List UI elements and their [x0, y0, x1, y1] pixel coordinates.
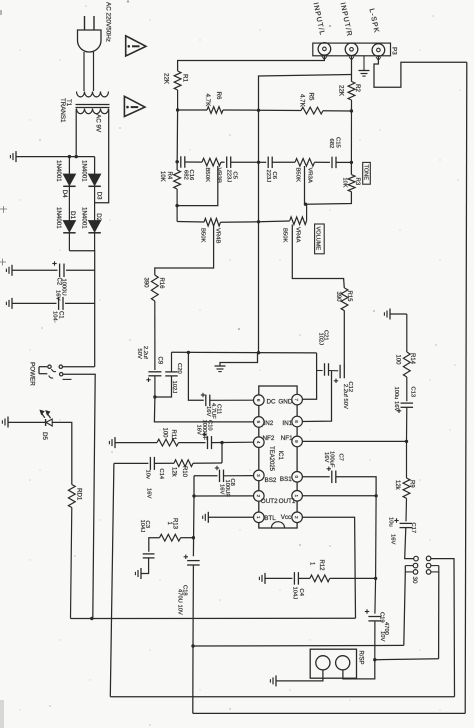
- capacitor: [226, 156, 228, 168]
- capacitor: [331, 471, 333, 484]
- svg-text:NF1: NF1: [281, 435, 293, 442]
- wire: [192, 565, 195, 713]
- wire: [336, 161, 351, 163]
- wire: [404, 572, 406, 646]
- svg-text:B50K: B50K: [295, 168, 301, 182]
- svg-text:C4: C4: [298, 589, 304, 597]
- resistor R12: [310, 575, 330, 582]
- svg-text:AC 9V: AC 9V: [95, 114, 102, 133]
- wire: [65, 302, 95, 304]
- ground: [7, 417, 9, 428]
- wire: [303, 440, 407, 442]
- warning triangle 1: [126, 36, 146, 56]
- wire top rail: [16, 156, 95, 158]
- svg-text:16V: 16V: [145, 488, 151, 498]
- svg-text:102J: 102J: [318, 333, 324, 346]
- wire: [350, 162, 352, 174]
- svg-text:R3: R3: [354, 178, 360, 186]
- diode D3 1N4001: [88, 174, 100, 186]
- wire: [438, 572, 440, 659]
- ground: [215, 365, 226, 367]
- wire: [154, 301, 156, 370]
- junction C19 bottom: [373, 658, 376, 661]
- wire: [208, 516, 253, 518]
- wire: [93, 52, 95, 91]
- junction tone wiper: [175, 204, 178, 207]
- potentiometer VR3B: [202, 158, 221, 166]
- svg-text:1: 1: [294, 495, 299, 498]
- svg-text:223J: 223J: [226, 170, 232, 183]
- jack bracket right: [431, 565, 439, 567]
- svg-text:1N4001: 1N4001: [80, 160, 87, 182]
- svg-text:7: 7: [294, 398, 299, 401]
- svg-text:100: 100: [394, 355, 400, 366]
- wire: [374, 55, 467, 87]
- wire to DC pin: [210, 399, 254, 401]
- svg-text:10v: 10v: [144, 470, 150, 479]
- wire: [323, 110, 351, 112]
- svg-text:R5: R5: [308, 93, 315, 101]
- svg-text:TRANS1: TRANS1: [59, 98, 66, 123]
- svg-text:C14: C14: [158, 469, 164, 480]
- wire R2 to tone: [350, 100, 352, 162]
- capacitor: [58, 297, 60, 310]
- wire: [276, 670, 323, 681]
- box TONE: [363, 162, 371, 184]
- wire: [465, 62, 467, 713]
- wire: [177, 161, 179, 163]
- svg-text:TEA2025: TEA2025: [268, 446, 274, 472]
- wire: [303, 371, 332, 422]
- capacitor: [148, 371, 161, 373]
- svg-text:R10: R10: [181, 466, 187, 478]
- svg-text:3: 3: [256, 474, 261, 477]
- capacitor: [339, 365, 341, 379]
- jack contact: [426, 563, 431, 568]
- wire RD1 to V+ rail: [71, 508, 72, 619]
- svg-text:POWER: POWER: [29, 362, 36, 386]
- junction mid bus: [257, 109, 260, 112]
- svg-text:1N4001: 1N4001: [80, 207, 87, 229]
- junction mid bus tone row: [257, 161, 260, 164]
- wire: [185, 161, 202, 163]
- wire: [406, 407, 408, 441]
- svg-text:D1: D1: [69, 211, 76, 219]
- capacitor: [187, 560, 200, 562]
- wire: [177, 166, 218, 206]
- resistor R11: [157, 439, 179, 446]
- wire: [259, 220, 290, 223]
- wire: [317, 370, 323, 372]
- wire: [193, 462, 222, 464]
- svg-text:R9: R9: [408, 480, 414, 488]
- svg-text:50V: 50V: [136, 349, 142, 359]
- jack contact tip-left: [414, 556, 419, 561]
- diode D4 1N4001: [63, 174, 75, 186]
- svg-text:IN2: IN2: [264, 420, 274, 427]
- IC U1 TEA2025 body: [259, 386, 297, 528]
- ground: [389, 309, 391, 320]
- svg-text:10K: 10K: [159, 171, 165, 182]
- wire: [375, 658, 439, 661]
- mains plug: [84, 16, 86, 30]
- capacitor: [331, 157, 333, 169]
- svg-text:1N4001: 1N4001: [55, 160, 62, 182]
- svg-text:30: 30: [411, 577, 418, 584]
- svg-text:D2: D2: [95, 213, 102, 221]
- wire: [351, 56, 353, 82]
- wire: [75, 109, 77, 157]
- scan specks: [127, 0, 129, 2]
- transformer T1: [77, 92, 109, 97]
- svg-text:C17: C17: [410, 523, 416, 534]
- resistor R9: [403, 478, 410, 498]
- wire: [221, 161, 225, 163]
- svg-text:RD1: RD1: [76, 488, 83, 501]
- capacitor: [324, 363, 326, 376]
- wire: [212, 441, 254, 443]
- plug cord: [83, 52, 85, 91]
- svg-text:VR3B: VR3B: [216, 168, 222, 183]
- jack contact: [413, 563, 418, 568]
- junction tone out: [304, 203, 307, 206]
- svg-text:R2: R2: [354, 84, 361, 92]
- wire R3 to tone node: [306, 192, 352, 204]
- svg-text:16V: 16V: [195, 425, 201, 435]
- capacitor: [165, 371, 178, 373]
- svg-text:2: 2: [256, 495, 261, 498]
- svg-text:22K: 22K: [338, 85, 345, 97]
- wire: [172, 351, 317, 354]
- wire: [63, 366, 95, 368]
- wire: [330, 577, 376, 579]
- wire: [176, 110, 179, 170]
- svg-text:6: 6: [256, 399, 261, 402]
- junction: [175, 160, 178, 163]
- svg-text:10u: 10u: [387, 517, 393, 527]
- svg-text:R12: R12: [318, 560, 324, 572]
- resistor RD1: [68, 485, 75, 508]
- junction R1/R6: [176, 108, 179, 111]
- junction R12/C19: [374, 577, 377, 580]
- potentiometer VR3A: [295, 159, 315, 167]
- capacitor: [205, 395, 207, 407]
- wire: [194, 495, 253, 497]
- svg-text:0: 0: [294, 476, 299, 479]
- wire: [63, 374, 95, 618]
- svg-text:1000U: 1000U: [61, 279, 67, 296]
- wire: [343, 660, 375, 679]
- wire: [303, 353, 317, 399]
- wire: [115, 442, 157, 444]
- junction OUT1: [374, 494, 377, 497]
- wire: [223, 109, 259, 111]
- wire: [176, 189, 178, 222]
- svg-text:IN1: IN1: [282, 420, 292, 427]
- svg-text:D3: D3: [96, 192, 103, 200]
- wire: [220, 353, 258, 366]
- wire: [406, 377, 408, 401]
- junction R2/R5: [350, 109, 353, 112]
- svg-text:100: 100: [162, 428, 168, 439]
- jack contact mark: [376, 57, 381, 60]
- junction R13: [192, 536, 195, 539]
- pin IN1: [292, 416, 303, 427]
- resistor R2: [348, 82, 355, 101]
- wire: [177, 221, 204, 224]
- svg-text:5: 5: [256, 421, 261, 424]
- wire: [69, 251, 94, 367]
- svg-text:10V: 10V: [379, 631, 385, 641]
- svg-text:R15: R15: [346, 291, 352, 303]
- wire: [221, 221, 259, 223]
- svg-text:BS1: BS1: [280, 476, 292, 483]
- wire: [272, 161, 295, 163]
- svg-text:4: 4: [256, 441, 261, 444]
- svg-text:VOLUME: VOLUME: [315, 227, 321, 251]
- svg-text:C15: C15: [334, 137, 340, 149]
- svg-text:VR3A: VR3A: [307, 168, 313, 183]
- svg-text:R16: R16: [158, 278, 164, 290]
- svg-text:OUT2: OUT2: [261, 498, 278, 505]
- svg-text:BS2: BS2: [265, 477, 277, 484]
- node bridge AC1: [68, 155, 71, 158]
- connector P3: [313, 43, 391, 56]
- ground C3: [140, 568, 142, 579]
- svg-text:4.7K: 4.7K: [204, 94, 211, 108]
- svg-text:D5: D5: [41, 432, 48, 440]
- wire: [329, 370, 339, 372]
- wire: [438, 566, 440, 572]
- wire: [298, 577, 310, 579]
- svg-text:1: 1: [256, 516, 261, 519]
- wire: [259, 161, 267, 163]
- svg-text:16V: 16V: [218, 484, 224, 494]
- wire: [406, 441, 408, 478]
- pin NF1: [292, 436, 303, 447]
- junction OUT2: [192, 494, 195, 497]
- wire: [390, 313, 407, 315]
- wire: [171, 352, 173, 372]
- svg-text:R1: R1: [182, 74, 189, 82]
- svg-text:C7: C7: [337, 454, 343, 461]
- svg-text:104J: 104J: [291, 587, 297, 600]
- svg-text:102J: 102J: [171, 381, 177, 394]
- svg-text:390: 390: [142, 278, 148, 289]
- wire: [68, 233, 70, 251]
- wire: [76, 107, 110, 109]
- pin 1 BTL: [253, 512, 264, 523]
- capacitor: [149, 457, 151, 470]
- svg-text:GND: GND: [278, 398, 292, 405]
- svg-text:390: 390: [335, 292, 341, 303]
- wire: [406, 314, 408, 352]
- wire: [155, 376, 172, 397]
- junction gnd bus / C11 branch: [187, 351, 190, 354]
- wire: [178, 55, 325, 71]
- svg-text:R/SP: R/SP: [358, 651, 364, 665]
- wire: [114, 462, 148, 464]
- jack contact: [413, 570, 418, 575]
- junction: [132, 45, 140, 47]
- pin BS1: [292, 472, 303, 483]
- switch POWER: [39, 366, 47, 368]
- svg-text:B50K: B50K: [199, 228, 205, 242]
- pin Vcc: [292, 512, 303, 523]
- wire: [188, 352, 203, 400]
- capacitor: [368, 616, 381, 618]
- resistor R16: [151, 275, 158, 301]
- wire: [154, 397, 253, 422]
- ground: [207, 512, 209, 523]
- wire: [181, 537, 194, 539]
- ground: [11, 265, 13, 276]
- wire: [405, 571, 413, 573]
- ground: [15, 151, 17, 162]
- capacitor: [180, 156, 182, 168]
- wire: [94, 186, 96, 220]
- wire: [431, 559, 455, 697]
- wire: [231, 161, 259, 163]
- svg-text:R6: R6: [215, 92, 222, 100]
- junction NF2: [220, 441, 223, 444]
- svg-text:VR4A: VR4A: [294, 227, 300, 242]
- svg-text:P3: P3: [391, 47, 398, 55]
- wire: [93, 16, 95, 30]
- pin 2 OUT2: [253, 491, 264, 502]
- svg-text:AC 220V50Hz: AC 220V50Hz: [105, 2, 112, 42]
- junction gnd bus / input common: [257, 351, 260, 354]
- capacitor: [207, 436, 209, 449]
- wire: [192, 476, 195, 557]
- wire: [336, 477, 376, 496]
- capacitor: [400, 522, 413, 524]
- svg-text:9: 9: [294, 440, 299, 443]
- diode D1 1N4001: [63, 221, 75, 233]
- svg-text:C20: C20: [176, 363, 182, 375]
- wire: [155, 226, 214, 275]
- wire: [8, 421, 46, 423]
- pin GND: [292, 394, 303, 405]
- wire: [141, 558, 149, 574]
- wire: [374, 621, 376, 660]
- wire: [292, 225, 344, 289]
- pin 5 IN2: [253, 417, 264, 428]
- wire: [405, 498, 408, 521]
- wire: [95, 109, 109, 203]
- svg-text:Vcc: Vcc: [281, 514, 292, 521]
- wire: [45, 419, 47, 426]
- svg-text:R4: R4: [166, 172, 172, 180]
- junction V+ rail / switch: [90, 617, 93, 620]
- svg-text:470U 10V: 470U 10V: [176, 589, 182, 615]
- svg-text:682: 682: [183, 170, 189, 180]
- wire: [110, 696, 454, 698]
- svg-text:B50K: B50K: [282, 228, 288, 242]
- svg-text:12k: 12k: [170, 467, 176, 478]
- ground: [114, 437, 116, 448]
- jack contact mark: [349, 57, 354, 60]
- junction NF1: [405, 440, 408, 443]
- svg-text:VR4B: VR4B: [215, 228, 221, 243]
- wire VR4A to tone node: [306, 204, 308, 221]
- wire: [94, 233, 96, 251]
- svg-text:OUT1: OUT1: [279, 498, 296, 505]
- junction mid bus volume row: [257, 220, 260, 223]
- svg-text:682: 682: [328, 139, 334, 149]
- pin 4 NF2: [253, 437, 264, 448]
- svg-text:C9: C9: [156, 357, 162, 365]
- svg-text:16V: 16V: [323, 452, 329, 462]
- svg-text:B50K: B50K: [204, 168, 210, 182]
- wire: [66, 269, 95, 271]
- wire OUT1 column: [375, 496, 378, 579]
- junction R2 column / C15: [350, 161, 353, 164]
- wire to jack: [405, 528, 414, 559]
- svg-text:10K: 10K: [342, 178, 348, 188]
- junction C18 / jack line: [191, 644, 194, 647]
- wire: [374, 578, 377, 613]
- svg-text:100u 16V: 100u 16V: [393, 387, 399, 412]
- svg-text:8: 8: [294, 420, 299, 423]
- ground: [359, 70, 370, 72]
- capacitor: [293, 572, 295, 585]
- svg-text:104J: 104J: [139, 520, 145, 533]
- svg-text:DC: DC: [267, 398, 277, 405]
- wire: [154, 376, 156, 397]
- svg-text:NF2: NF2: [263, 435, 275, 442]
- svg-text:2.2uf 50V: 2.2uf 50V: [342, 384, 348, 409]
- junction C9/C20: [153, 395, 156, 398]
- wire: [259, 109, 302, 111]
- svg-text:1N4001: 1N4001: [55, 207, 62, 229]
- wire: [179, 442, 206, 444]
- capacitor: [401, 402, 414, 404]
- ground: [264, 573, 266, 584]
- jack bracket left: [404, 566, 406, 572]
- capacitor: [143, 553, 155, 555]
- jack contact mark: [322, 56, 327, 59]
- wire: [303, 517, 356, 618]
- wire: [363, 56, 365, 71]
- svg-text:104: 104: [52, 311, 58, 321]
- wire: [315, 161, 330, 163]
- svg-text:22K: 22K: [163, 73, 170, 85]
- wire: [259, 75, 352, 353]
- svg-text:12k: 12k: [394, 480, 400, 491]
- capacitor: [59, 264, 61, 278]
- wire: [71, 617, 356, 619]
- svg-text:223J: 223J: [265, 170, 271, 183]
- ground: [11, 298, 13, 309]
- svg-text:BTL: BTL: [264, 515, 276, 522]
- svg-text:2: 2: [294, 516, 299, 519]
- wire: [194, 475, 218, 477]
- wire: [224, 475, 254, 477]
- wire: [94, 157, 96, 174]
- pin 6 DC: [253, 395, 264, 406]
- svg-text:TONE: TONE: [362, 165, 368, 181]
- svg-text:16V: 16V: [389, 534, 395, 544]
- resistor R14: [403, 352, 410, 377]
- wire: [304, 166, 306, 204]
- wire: [63, 378, 72, 380]
- svg-text:IC1: IC1: [277, 451, 283, 461]
- svg-text:16V: 16V: [55, 290, 61, 300]
- junction: [131, 106, 139, 108]
- wire: [193, 712, 465, 714]
- wire: [177, 90, 179, 110]
